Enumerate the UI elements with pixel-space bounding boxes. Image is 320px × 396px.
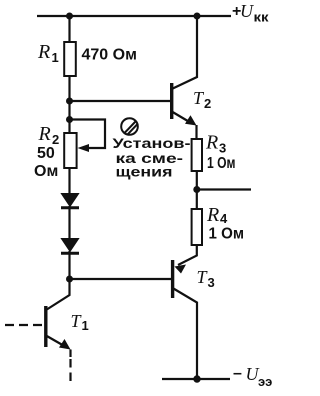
svg-text:щения: щения — [116, 164, 173, 180]
svg-text:1: 1 — [52, 50, 59, 65]
potentiometer R2 wiper arrow — [78, 144, 90, 152]
svg-text:R: R — [37, 41, 50, 63]
wire R2 bottom to diode D1 — [68, 168, 70, 194]
resistor R3 body — [192, 139, 202, 171]
svg-text:470 Ом: 470 Ом — [82, 47, 137, 64]
svg-text:R: R — [206, 204, 219, 226]
transistor T1 bar — [44, 306, 47, 347]
wire output from node — [197, 188, 251, 190]
svg-text:3: 3 — [208, 275, 215, 290]
svg-text:3: 3 — [219, 141, 226, 156]
node junction dot R2 top / wiper — [66, 116, 73, 123]
resistor R4 body — [192, 209, 202, 245]
svg-text:ээ: ээ — [258, 374, 272, 389]
wire rail to R1 — [68, 16, 70, 42]
svg-text:R: R — [38, 123, 51, 145]
svg-text:кк: кк — [254, 10, 270, 25]
wire base of T2 — [70, 100, 171, 102]
svg-text:2: 2 — [204, 96, 211, 111]
wire R3 to R4 through node — [196, 171, 198, 209]
svg-text:1: 1 — [82, 318, 89, 333]
svg-text:1 Ом: 1 Ом — [207, 155, 236, 172]
diode D2 — [61, 239, 78, 252]
transistor T3 bar — [171, 260, 174, 298]
wire node down to T1 collector — [47, 279, 70, 310]
wire top rail +Ukk — [37, 15, 231, 17]
potentiometer R2 body — [64, 133, 76, 168]
svg-text:Ом: Ом — [34, 163, 58, 180]
transistor T1 emitter — [47, 336, 66, 347]
wire T3 collector to bottom rail — [173, 288, 197, 379]
wire D2 to node — [68, 251, 70, 279]
svg-text:Установ-: Установ- — [113, 135, 191, 151]
node junction dot diodes / T1 / T3 base — [66, 276, 73, 283]
transistor T1 emitter lead dashed — [69, 350, 71, 358]
wire T2 emitter to R3 — [195, 125, 197, 139]
wire base of T3 — [70, 278, 172, 280]
wire T2 collector to rail — [172, 16, 197, 89]
node junction dot at rail right — [194, 13, 201, 20]
screwdriver adjust symbol — [121, 118, 138, 135]
wire D1 to D2 — [68, 206, 70, 239]
node junction dot at rail left — [66, 13, 73, 20]
svg-text:1 Ом: 1 Ом — [209, 226, 245, 243]
svg-text:R: R — [205, 132, 218, 154]
wire R1 bottom to R2 top — [68, 76, 70, 133]
node junction dot bottom rail — [193, 375, 200, 382]
node junction dot R1 bottom / T2 base — [66, 98, 73, 105]
transistor T1 base dashed — [5, 324, 44, 326]
wire bottom rail -Uee — [162, 378, 230, 380]
wire R2 wiper — [70, 120, 106, 149]
transistor T2 bar — [170, 83, 173, 119]
svg-text:U: U — [240, 1, 254, 21]
node junction dot R3/R4 output — [193, 186, 200, 193]
diode D1 — [61, 194, 78, 207]
svg-text:50: 50 — [37, 145, 55, 162]
transistor T3 emitter arrow (PNP, pointing into bar) — [175, 265, 187, 274]
transistor T2 emitter with arrow — [173, 112, 192, 124]
wire R4 bottom to T3 emitter — [178, 245, 197, 265]
resistor R1 body — [64, 42, 76, 76]
svg-text:–: – — [233, 365, 242, 382]
svg-text:4: 4 — [220, 211, 228, 226]
